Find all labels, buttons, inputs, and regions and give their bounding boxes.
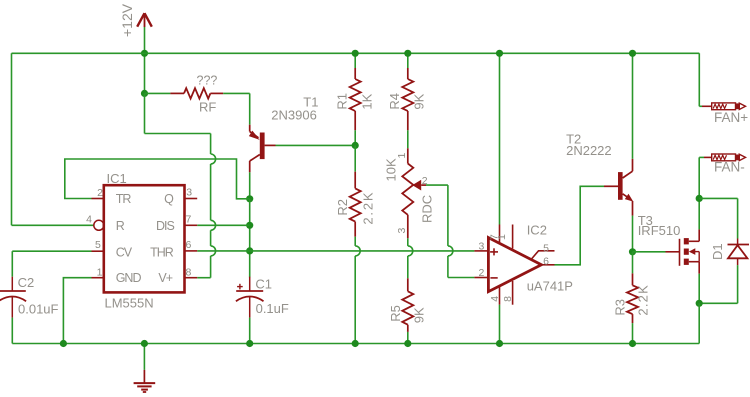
svg-text:1: 1 — [396, 153, 408, 159]
wire IC1 pin6 THR left — [197, 250, 250, 252]
svg-text:RDC: RDC — [420, 195, 435, 223]
wire IC2 V- pin4 to rail — [499, 305, 501, 344]
label 2N2222 — [566, 143, 612, 158]
svg-text:IC2: IC2 — [527, 222, 547, 237]
power +12V symbol — [119, 3, 152, 37]
svg-text:TR: TR — [116, 192, 132, 206]
svg-text:2N3906: 2N3906 — [271, 108, 317, 123]
svg-text:2N2222: 2N2222 — [566, 143, 612, 158]
connector FAN+ — [712, 103, 746, 110]
label D1 — [710, 243, 725, 260]
label 2N3906 — [271, 108, 317, 123]
svg-text:0.1uF: 0.1uF — [256, 301, 289, 316]
pin number 2 of RDC — [422, 175, 428, 187]
node R4 rail junction — [404, 50, 411, 57]
svg-text:1K: 1K — [360, 93, 375, 109]
node R2 rail junction — [352, 340, 359, 347]
svg-text:8: 8 — [186, 266, 192, 278]
pin number 3 of IC2 — [479, 240, 485, 252]
transistor T1 2N3906 (PNP, mirrored) — [249, 125, 276, 173]
label T1 — [303, 94, 318, 109]
node T2 emitter / gate / R3 junction — [629, 248, 636, 255]
op-amp IC2 uA741P — [474, 225, 554, 305]
wire +12V to top rail — [144, 27, 146, 93]
wire RDC wiper to op-amp -input (hops THR) — [426, 185, 474, 277]
svg-text:THR: THR — [150, 246, 174, 260]
label IRF510 — [638, 223, 681, 238]
wire C2 to bottom rail — [11, 318, 13, 344]
node R5 rail junction — [404, 340, 411, 347]
pin label Q — [164, 192, 174, 206]
pin number 8 of IC2 — [502, 296, 514, 302]
pin number 3 — [186, 186, 192, 198]
svg-text:4: 4 — [86, 214, 92, 226]
label 0.01uF value — [18, 301, 59, 316]
resistor R2 — [350, 172, 361, 237]
wire T2 emitter down — [632, 216, 634, 252]
svg-text:5: 5 — [95, 239, 101, 251]
label IC1 — [107, 171, 127, 186]
node DIS junction — [246, 222, 253, 229]
svg-text:R: R — [116, 219, 125, 233]
wire RF right to T1 emitter — [223, 93, 250, 124]
svg-text:1: 1 — [97, 266, 103, 278]
svg-text:3: 3 — [479, 240, 485, 252]
label RDC — [420, 195, 435, 223]
pin number 4 — [86, 214, 92, 226]
label T3 — [638, 213, 653, 228]
svg-text:RF: RF — [199, 100, 216, 115]
wire FAN- to drain node — [699, 157, 712, 198]
svg-text:3: 3 — [396, 228, 408, 234]
transistor T3 IRF510 (N-MOSFET) — [680, 229, 700, 273]
label FAN+ — [714, 110, 748, 125]
pin number 7 — [186, 214, 192, 226]
label 0.1uF value — [256, 301, 289, 316]
resistor R4 — [402, 68, 413, 130]
wire R4 top — [407, 53, 409, 68]
svg-text:???: ??? — [197, 74, 218, 88]
pin label CV — [116, 246, 133, 260]
wire IC1 pin4 R — [12, 224, 94, 226]
resistor R3 — [627, 273, 638, 323]
transistor T2 2N2222 (NPN) — [604, 159, 633, 216]
resistor RF — [170, 88, 223, 98]
wire T2 collector to rail — [632, 53, 634, 159]
wire gate net — [633, 251, 680, 253]
capacitor C2 0.01uF — [0, 277, 26, 318]
svg-text:+12V: +12V — [119, 3, 135, 37]
wire bottom ground rail — [12, 343, 699, 345]
pin label THR — [150, 246, 174, 260]
svg-text:C2: C2 — [18, 275, 35, 290]
svg-text:6: 6 — [186, 239, 192, 251]
wire left rail down to pin R — [11, 53, 13, 225]
pin label R — [116, 219, 125, 233]
wire T3 drain up — [698, 198, 700, 229]
node GND rail junction — [60, 340, 67, 347]
svg-text:9K: 9K — [412, 93, 427, 109]
wire R2 top — [354, 145, 356, 171]
wire T1 base to R1/R2 node — [276, 144, 356, 146]
svg-text:9K: 9K — [412, 307, 427, 323]
svg-text:4: 4 — [489, 296, 501, 302]
node drain / FAN- / D1 junction — [696, 195, 703, 202]
potentiometer RDC 10K — [402, 148, 426, 238]
wire top +12V rail — [12, 52, 700, 54]
wire C1 to bottom rail — [249, 318, 251, 344]
svg-text:2: 2 — [479, 267, 485, 279]
label LM555N — [105, 296, 154, 311]
svg-text:uA741P: uA741P — [527, 278, 573, 293]
wire IC1 pin2 TR net — [65, 159, 250, 199]
op-amp IC1 LM555N body — [92, 185, 198, 292]
svg-text:10K: 10K — [384, 158, 399, 181]
label C2 — [18, 275, 35, 290]
pin number 6 — [186, 239, 192, 251]
svg-text:FAN-: FAN- — [714, 159, 745, 174]
svg-text:2: 2 — [97, 187, 103, 199]
label R5 — [388, 305, 403, 322]
svg-text:3: 3 — [186, 186, 192, 198]
label R2 — [335, 199, 350, 216]
wire R1 bottom — [354, 130, 356, 145]
wire IC1 pin8 V+ — [197, 277, 210, 279]
pin number 2 of IC2 — [479, 267, 485, 279]
pin label GND — [116, 271, 142, 285]
wire RF node to IC1 V+ (vertical with hops) — [145, 93, 216, 277]
label 9K value of R5 — [412, 307, 427, 323]
pin label V+ — [158, 271, 172, 285]
pin number 7 of IC2 — [488, 234, 500, 240]
svg-text:GND: GND — [116, 271, 142, 285]
pin label TR — [116, 192, 132, 206]
diode D1 — [728, 245, 750, 266]
pin number 5 of IC2 — [543, 243, 549, 255]
node T1 collector junction — [246, 195, 253, 202]
wire IC1 pin7 DIS — [197, 224, 250, 226]
wire FAN+ from rail — [699, 53, 711, 106]
label FAN- — [714, 159, 745, 174]
resistor R5 — [402, 278, 413, 332]
node source / D1 / rail junction — [696, 300, 703, 307]
capacitor C1 0.1uF — [236, 277, 264, 318]
svg-text:IRF510: IRF510 — [638, 223, 681, 238]
label RF — [199, 100, 216, 115]
svg-text:LM555N: LM555N — [105, 296, 154, 311]
node ground rail junction — [141, 340, 148, 347]
svg-text:0.01uF: 0.01uF — [18, 301, 59, 316]
wire RDC bottom to R5 (hops THR) — [408, 238, 413, 278]
label 9K value — [412, 93, 427, 109]
svg-text:2.2K: 2.2K — [361, 191, 376, 225]
wire T3 source down — [698, 274, 700, 304]
svg-text:R3: R3 — [613, 299, 628, 316]
pin number 5 — [95, 239, 101, 251]
svg-text:R5: R5 — [388, 305, 403, 322]
svg-text:7: 7 — [186, 214, 192, 226]
pin number 8 — [186, 266, 192, 278]
label R3 — [613, 299, 628, 316]
svg-text:FAN+: FAN+ — [714, 110, 748, 125]
svg-text:Q: Q — [164, 192, 174, 206]
label R1 — [335, 93, 350, 110]
node T2 collector rail junction — [629, 50, 636, 57]
node +12V top rail junction — [141, 50, 148, 57]
wire R1 top — [354, 53, 356, 68]
node IC2 V- rail junction — [496, 340, 503, 347]
svg-text:V+: V+ — [158, 271, 172, 285]
wire R3 bottom — [632, 323, 634, 343]
pin number 4 of IC2 — [489, 296, 501, 302]
wire R4 bottom to RDC — [407, 130, 409, 148]
label IC2 — [527, 222, 547, 237]
node RF left junction — [141, 90, 148, 97]
svg-text:D1: D1 — [710, 243, 725, 260]
label uA741P — [527, 278, 573, 293]
wire THR net to op-amp +input — [250, 250, 475, 252]
wire R2 bottom to rail (hops THR) — [355, 237, 360, 344]
svg-text:6: 6 — [543, 255, 549, 267]
svg-text:DIS: DIS — [156, 219, 175, 233]
wire T1 collector down — [249, 172, 251, 199]
pin number 3 of RDC — [396, 228, 408, 234]
label T2 — [566, 132, 581, 147]
node THR junction — [246, 247, 253, 254]
node IC2 V+ rail junction — [496, 50, 503, 57]
resistor R1 — [350, 68, 361, 130]
svg-text:C1: C1 — [255, 277, 272, 292]
node C1 rail junction — [246, 340, 253, 347]
wire R3 top — [632, 252, 634, 273]
ground symbol GND — [134, 344, 156, 393]
pin number 2 — [97, 187, 103, 199]
svg-text:R2: R2 — [335, 199, 350, 216]
node R1/R2/T1 base junction — [352, 142, 359, 149]
wire source node to bottom rail — [698, 303, 700, 343]
pin number 1 of RDC — [396, 153, 408, 159]
svg-text:R1: R1 — [335, 93, 350, 110]
label C1 — [255, 277, 272, 292]
wire IC2 V+ pin7 to rail — [499, 53, 501, 224]
svg-text:8: 8 — [502, 296, 514, 302]
pin number 6 of IC2 — [543, 255, 549, 267]
pin number 1 — [97, 266, 103, 278]
label 1K value — [360, 93, 375, 109]
svg-text:5: 5 — [543, 243, 549, 255]
node R3 rail junction — [629, 340, 636, 347]
wire RF left lead — [145, 92, 171, 94]
label R4 — [387, 93, 402, 110]
svg-text:2.2K: 2.2K — [636, 284, 651, 316]
label 2.2K value — [361, 191, 376, 225]
svg-text:IC1: IC1 — [107, 171, 127, 186]
connector FAN- — [712, 154, 746, 161]
pin label DIS — [156, 219, 175, 233]
wire IC1 pin1 GND — [63, 278, 91, 344]
svg-text:R4: R4 — [387, 93, 402, 110]
label ??? value of RF — [197, 74, 218, 88]
svg-text:1: 1 — [496, 234, 508, 240]
label 10K value — [384, 158, 399, 181]
pin number 1 of IC2 — [496, 234, 508, 240]
svg-text:CV: CV — [116, 246, 133, 260]
wire D1 anode to source node — [699, 265, 737, 303]
wire IC2 output to T2 base — [555, 186, 605, 264]
node R1 rail junction — [352, 50, 359, 57]
label 2.2K value of R3 — [636, 284, 651, 316]
wire to D1 cathode — [699, 198, 737, 244]
wire IC1 pin5 CV — [12, 251, 91, 277]
wire R5 bottom — [407, 332, 409, 344]
wire collector net down to C1 — [249, 199, 251, 278]
